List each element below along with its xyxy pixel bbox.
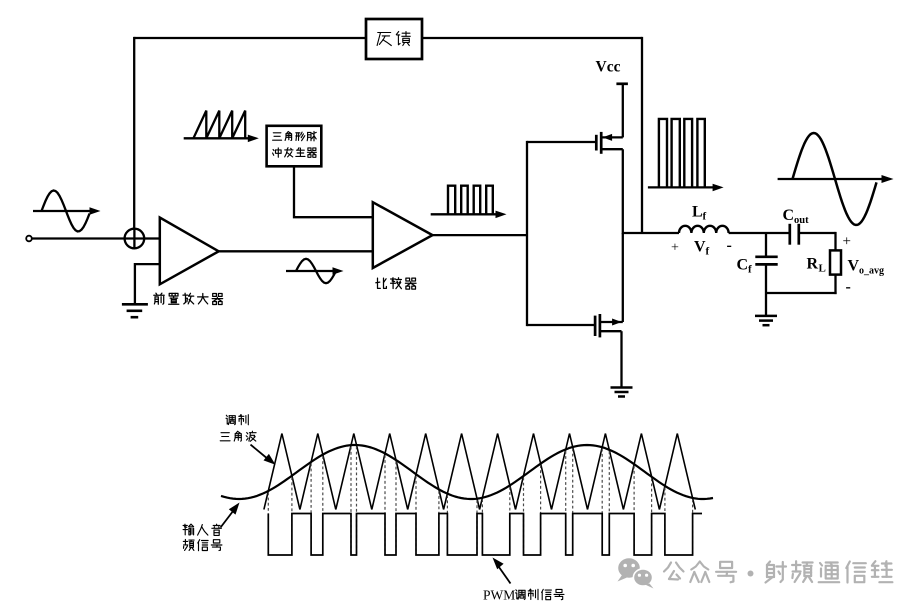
input terminal [26,236,32,242]
summing junction node [125,229,145,249]
ground (Q2) [611,386,633,389]
input sine symbol [33,210,95,212]
bottom plot: modulating triangle carrier [264,434,695,510]
svg-text:-: - [846,279,851,296]
sine symbol after preamp [286,270,338,272]
output sine symbol [778,178,887,180]
label 比较器 [376,278,387,288]
wire: RL bottom [834,275,836,295]
wire: generator to comparator input [294,166,373,217]
wire: comparator output to gate rail [433,234,528,236]
svg-text:f: f [748,264,752,276]
svg-text:+: + [671,241,679,256]
wire: Vcc to Q1 source [622,84,624,138]
wire: feedback vertical tap from output rail [641,37,643,233]
wire: Q1 drain to output node [622,149,624,234]
wire: Q2 source to ground [620,331,622,387]
wire: feedback top-left horizontal [134,37,366,39]
capacitor Cout [788,224,791,245]
sawtooth symbol [184,137,253,139]
op-amp U1 preamp [160,218,219,285]
op-amp U2 comparator [373,202,433,268]
svg-text:R: R [807,256,819,273]
svg-text:Vcc: Vcc [596,59,621,76]
svg-text:C: C [737,257,749,274]
svg-text:+: + [843,234,851,250]
arrow: 输入音频信号 pointer [221,511,234,528]
transistor Q1 (upper PMOS) [595,135,598,151]
wire: Q1 gate [527,141,595,143]
node: Cf junction [765,233,767,257]
resistor RL [830,250,841,274]
svg-text:-: - [727,237,732,254]
svg-text:f: f [706,246,710,258]
wire: inductor to Cout [729,232,790,234]
svg-text:out: out [794,215,809,226]
PWM symbol tall [648,186,717,188]
PWM symbol small [431,213,500,215]
arrow: 调制三角波 pointer [251,445,269,460]
transistor Q2 (lower NMOS) [594,316,597,336]
triangle pulse generator box 三角形脉冲发生器 [267,126,322,167]
label 前置放大器 [154,293,164,304]
inductor Lf [679,226,729,233]
bottom plot: input audio sine [221,445,713,499]
watermark icon (chat bubbles) [618,558,654,588]
wire: bottom return Cf to RL [766,292,837,294]
watermark text 公众号·射频通信链 [664,563,684,580]
wire: input to summer [32,237,125,239]
svg-text:f: f [703,211,707,223]
wire: preamp output to comparator [219,250,373,252]
bottom plot: dashed crossing projection lines [268,447,692,556]
wire: Cf branch to ground [765,293,767,316]
arrow: PWM调制信号 pointer [498,565,511,584]
svg-text:L: L [692,204,703,221]
svg-text:V: V [848,258,860,275]
ground (Cf) [755,315,777,318]
label 输入音频信号 [183,524,194,535]
label 调制三角波 [226,415,235,425]
Vcc supply bar [616,82,628,85]
svg-text:V: V [694,239,706,256]
wire: gate rail vertical [526,141,528,326]
bottom plot: PWM output trace [268,514,702,556]
wire: Q2 drain to output node [622,233,624,322]
wire: feedback box right to tap corner [422,37,642,39]
svg-text:C: C [783,207,795,224]
wire: output rail [623,232,679,234]
svg-text:o_avg: o_avg [859,266,884,277]
wire: Q2 gate [527,324,595,326]
svg-text:L: L [819,263,826,275]
wire: feedback left vertical down to summer [133,37,135,230]
wire: summer to preamp [144,237,160,239]
svg-text:PWM: PWM [483,588,515,603]
capacitor Cf [755,255,777,258]
feedback box 反馈 [366,19,422,59]
wire: Cout to RL [799,232,836,234]
ground (preamp) [122,303,148,306]
wire: preamp inverting input [135,264,160,303]
